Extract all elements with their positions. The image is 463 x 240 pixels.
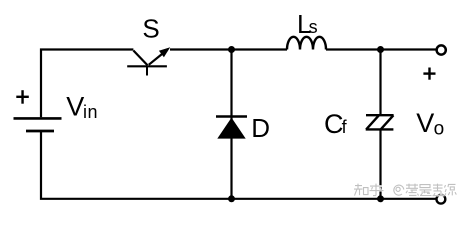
svg-text:V: V	[66, 92, 84, 122]
svg-text:V: V	[416, 108, 434, 138]
svg-text:s: s	[309, 17, 318, 37]
svg-text:in: in	[83, 102, 98, 122]
svg-text:S: S	[142, 13, 159, 43]
svg-text:o: o	[434, 119, 445, 140]
svg-text:C: C	[324, 109, 344, 139]
svg-text:D: D	[251, 113, 270, 143]
